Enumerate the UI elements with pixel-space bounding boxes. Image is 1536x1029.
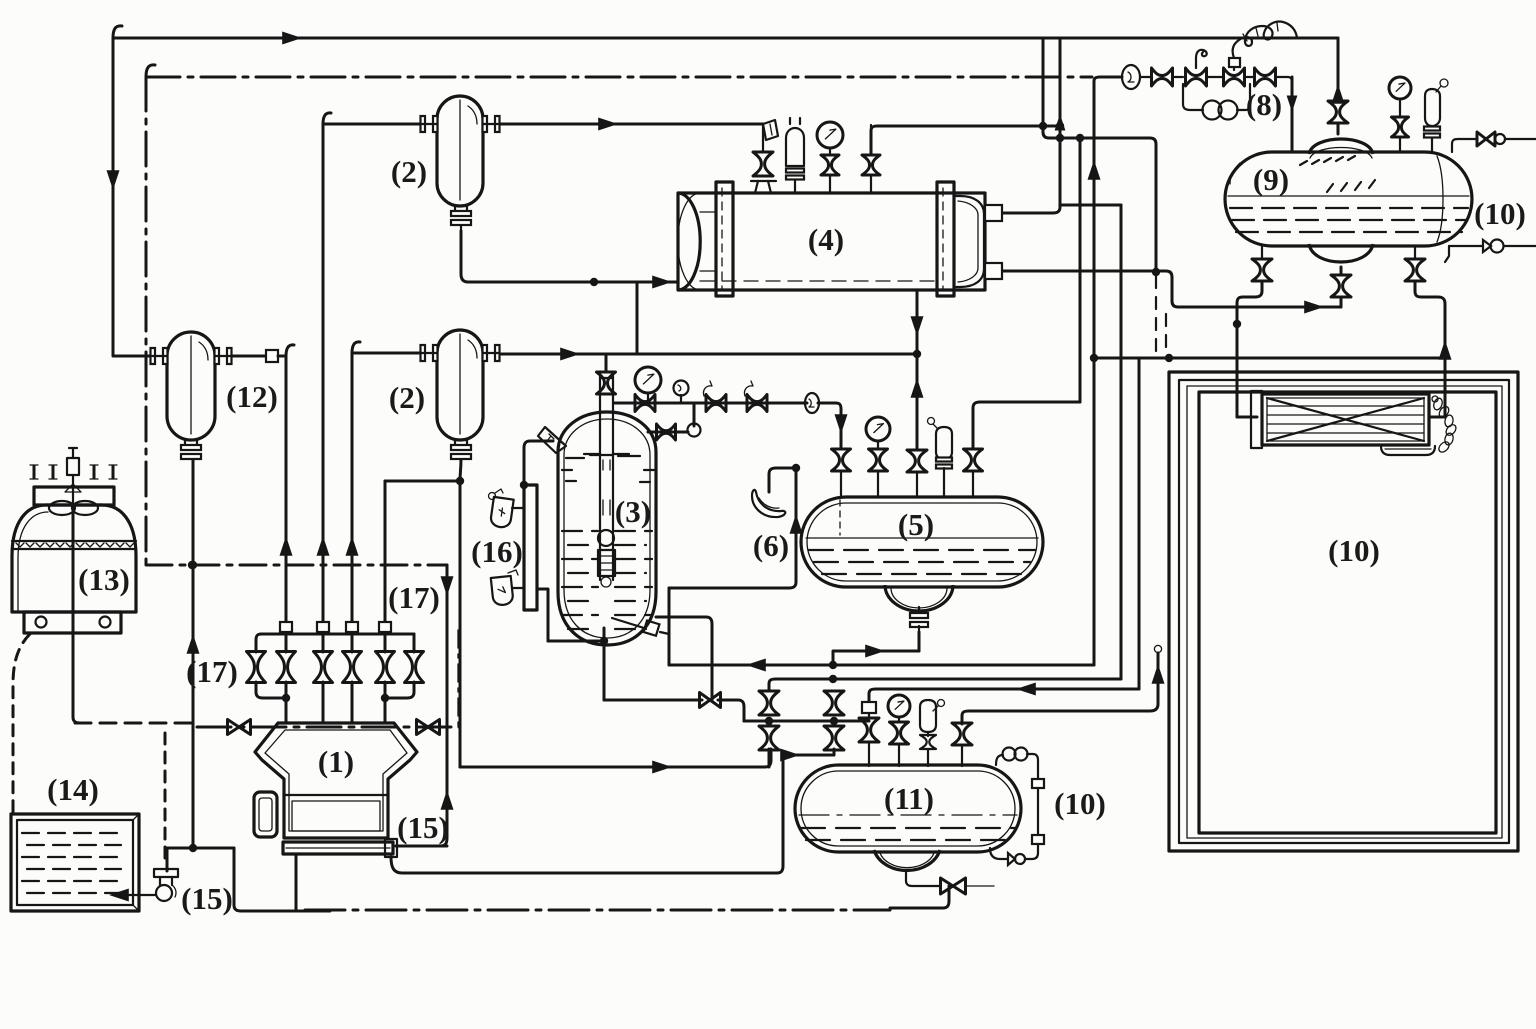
vessel (9) liquid level (1228, 195, 1469, 197)
drip tray in (10) (1381, 446, 1435, 455)
vessel (9) bottom dome (1309, 244, 1373, 262)
valve (17)-4 (343, 652, 362, 683)
svg-text:(12): (12) (226, 379, 278, 414)
machine (13) fan (49, 501, 75, 515)
stack4 gauge x=899 (888, 695, 910, 717)
vessel (9) shell (1225, 152, 1472, 246)
pump (15) (154, 869, 178, 877)
wire (3) level branch y=641 to x=548 and panel (548, 640, 604, 643)
valve compressor left (228, 720, 251, 735)
evaporator coil in (10) (1251, 391, 1262, 448)
vessel (4) right nozzles (985, 205, 1002, 221)
valve (8) c (1255, 68, 1276, 86)
vessel (4) right flange band (937, 182, 954, 296)
vessel (11) bottom dome (874, 850, 940, 870)
svg-text:(10): (10) (1054, 786, 1106, 821)
instrument pot (5) (928, 418, 935, 425)
wire (3) drain diagonal (612, 618, 644, 628)
oval instrument row-1 (805, 393, 819, 413)
wire compressor base to x=447 (396, 845, 447, 848)
wire (8) train outlet x=1292 into (9) top (1291, 77, 1294, 152)
svg-text:(17): (17) (388, 580, 440, 615)
wire (2)lower left nozzle feed from riser x=352 (352, 352, 421, 355)
valve (5) drain (918, 607, 920, 613)
valve (5) top-2 feed (907, 450, 927, 472)
box (10) outer wall (1169, 372, 1518, 851)
wire dashed x=1166 into cold box region (1165, 314, 1167, 356)
wire (2)lower bottom outlet down x=460 (460, 458, 461, 767)
wire (17) valve6 branch (413, 634, 416, 652)
valve (5) top-1 (832, 449, 851, 471)
wire (13) center drop (73, 505, 80, 723)
vessel (12) oil separator (167, 332, 215, 440)
panel (16) (524, 485, 537, 610)
wire (8) train line e (1276, 77, 1292, 90)
svg-text:(15): (15) (181, 881, 233, 916)
vessel (5) liquid (806, 537, 1038, 539)
pump (8) bypass gear (1203, 101, 1222, 120)
wire (2)top right nozzle line y=124 to relief flag (498, 123, 763, 126)
vessel (5) shell (801, 497, 1043, 587)
valve to header on (4) (870, 176, 872, 193)
vessel (9) top dome (1309, 139, 1373, 154)
wire return D y=711 from stack x=962 to x=1158 vent (962, 653, 1158, 724)
valve (17)-3 (314, 652, 333, 683)
wire (11) blowdown riser x=949 (943, 886, 949, 908)
vessel (3) dip tube (600, 374, 613, 580)
wire (5) riser x=973 up to y=402 and to x=1080 (973, 402, 1080, 449)
valve (17)-1 (247, 652, 266, 683)
relief valve with lever on (4) (755, 181, 771, 193)
wire (12) right nozzle to riser x=286 (231, 355, 266, 358)
valve (8) b (1224, 68, 1245, 86)
wire (2)lower right nozzle line y=354 to x=917 (498, 353, 917, 356)
wire (9) top-right vapor line (1452, 139, 1476, 152)
compressor (1) body (255, 723, 417, 838)
vessel (2) top (437, 96, 483, 206)
wire (4) relief riser line y=126 to x=1060 (871, 126, 1060, 154)
wire (8) train line b (1173, 76, 1183, 78)
wire (3) bottom line y=700 to valve and jog (604, 699, 702, 702)
svg-text:(9): (9) (1253, 162, 1289, 197)
wire y=205 from x=1060 to x=1121 (1060, 204, 1121, 207)
wire vertical x=1121 y=205 to 679 (1120, 205, 1123, 679)
valve (17)-5 (376, 652, 395, 683)
wire (9) right liquid line (1449, 245, 1483, 247)
wire (9) drain-1 x=1262 to cooler feed x=1237 (1237, 281, 1262, 417)
vessel (11) liquid (799, 814, 1017, 816)
svg-text:(3): (3) (615, 494, 651, 529)
wire stack1 bottom drop (768, 749, 771, 767)
wire (2)top feed y=124 from riser x=323 (323, 123, 421, 126)
wire (8) bypass loop (1183, 84, 1203, 110)
wire (8) suction riser x=1094 from y=665 to valve train y=77 (1094, 77, 1122, 665)
wire riser x=352 manifold to compressor (351, 353, 354, 652)
vessel (3) shell (558, 412, 656, 645)
vessel (11) shell (795, 765, 1021, 852)
wire vertical x=1139 y=358 to 689 (1138, 358, 1141, 689)
bucket (16) upper (490, 497, 514, 529)
valve (9) drain-2 (1331, 275, 1351, 297)
svg-text:(11): (11) (884, 781, 934, 816)
valve (11) drain (941, 878, 966, 894)
wire (3) instrument row y=403 from dip tube to (5) (614, 402, 807, 405)
svg-text:(10): (10) (1328, 533, 1380, 568)
svg-text:(2): (2) (391, 154, 427, 189)
gauge (3) big (635, 367, 661, 393)
compressor (1) suction drum (254, 792, 277, 837)
valve (9) right vapor (1477, 132, 1495, 146)
svg-text:(14): (14) (47, 772, 99, 807)
wire dash-dot drain y=910 to (11) blowdown (305, 909, 890, 912)
valve (3) bottom line (700, 693, 721, 708)
wire liquid feed y=721 from x=744 to stack x=869 (744, 720, 869, 723)
svg-text:(10): (10) (1474, 196, 1526, 231)
valve compressor right (417, 720, 440, 735)
wire stack2 bottom drop (833, 749, 836, 755)
machine (13) bracket (24, 612, 121, 633)
vessel (3) float (598, 530, 614, 546)
wire (11) drain (906, 871, 940, 886)
valve (9) drain-3 (1414, 246, 1416, 259)
svg-text:(17): (17) (186, 654, 238, 689)
wire x=796 down to y=588 return (669, 468, 796, 588)
valve (8) a (1152, 68, 1173, 86)
valve (3) feed (597, 372, 616, 394)
wire vertical x=1080 from y=138 to y=402 (1079, 138, 1082, 402)
wire dashed (13) to (14) (13, 634, 30, 812)
stack2 valves x=834 (824, 691, 844, 715)
wire (2)top bottom outlet down and right y=282 to (4) (461, 231, 678, 282)
valve (5) top-3 (964, 449, 983, 471)
wire (3) lower gauge line riser (693, 403, 696, 426)
valve (17)-6 (405, 652, 424, 683)
wire (17) header y=634 (261, 633, 414, 636)
pump (9) right liquid (1483, 240, 1491, 252)
machine (13) spray nozzles (34, 466, 113, 478)
valve (3) row-2 (706, 395, 726, 412)
chain on evaporator (1432, 397, 1444, 411)
instrument pot on (9) (1425, 89, 1440, 126)
svg-text:(2): (2) (389, 380, 425, 415)
vessel (4) left flange band (716, 182, 733, 296)
vessel (5) bottom dome (885, 585, 953, 611)
valve (8) hand with lever (1186, 68, 1207, 86)
wire oil drain y=848 from x=167 to x=234 (167, 847, 234, 850)
wire vertical x=113 down to (12) left nozzle (113, 38, 152, 356)
machine (13) distribution band (12, 541, 136, 549)
wire (3) feed valve drop x=606 (605, 354, 608, 372)
wire top discharge header y=38 from (1) area to (9) (113, 37, 1338, 40)
wire vertical x=1043 and y=138 line to x=1156 (1043, 38, 1156, 272)
wire (17) valve1 branch (256, 634, 261, 652)
wire (5) drain jog y=651 x=833 to x=919 (833, 651, 919, 665)
valve on (9) dome (1328, 101, 1348, 123)
svg-text:(13): (13) (78, 562, 130, 597)
wire (9) drain-3 x=1415 to x=1445 down to exchanger (1415, 281, 1445, 417)
valve (3) row-1 (635, 395, 655, 412)
wire return C y=689 from stack x=869 to x=1139 (869, 689, 1139, 702)
vessel (3) liquid dashes (562, 530, 652, 532)
wire oil return y=873 from compressor to stack2 (391, 755, 834, 873)
wire dash-dot x=458 segment above compressor line (457, 630, 459, 727)
wire riser x=323 manifold to compressor (322, 124, 325, 652)
gauge on (9) (1389, 77, 1411, 99)
wire (6) separator line to x=796 (769, 468, 796, 492)
wire pump discharge into tank (118, 894, 156, 896)
wire return A y=665 from x=669 to x=1094 (669, 664, 1094, 667)
wire suction y=767 from x=460 to stack1 (460, 749, 771, 767)
wire (8) train line d (1245, 76, 1255, 78)
wire dashed x=165 to oil pump (164, 733, 167, 866)
compressor (1) base plate (283, 842, 393, 854)
wire riser x=1341 into (9) bottom center valve (1340, 297, 1343, 307)
wire (8) train line a (1140, 76, 1152, 78)
wire (4) to (5) drop line x=917 (916, 290, 919, 450)
wire dash-dot compressor center line (75, 722, 193, 725)
stack1 valves x=769 (759, 691, 779, 715)
svg-text:(8): (8) (1246, 87, 1282, 122)
wire funnel line to (16) panel (524, 441, 553, 485)
wire exchanger outlet right (1429, 416, 1445, 419)
wire vertical x=669 from y=588 to y=665 (668, 588, 671, 665)
wire x=234 down to y=911 (234, 848, 330, 911)
wire (8) train line c (1207, 76, 1223, 78)
wire solid x=447 down to compressor base (396, 565, 447, 846)
wire dash-dot oil line y=77 from x=146 to (8) train (146, 76, 1092, 79)
valve (3) gauge-line (657, 424, 676, 440)
vessel (4) shell (678, 193, 985, 290)
funnel gauge on (3) shoulder (538, 427, 566, 453)
svg-text:(1): (1) (318, 744, 354, 779)
wire dash-dot vertical x=146 down to y=565 (145, 77, 148, 565)
wire (12) drop leg x=193 to oil drain (192, 456, 195, 848)
tank (14) liquid (22, 832, 126, 834)
wire riser x=286 manifold to compressor (285, 632, 288, 652)
wire (9) drain-2 center x=1341 valve stem (1340, 267, 1343, 275)
wire base drip leg x=296 (295, 855, 298, 911)
wire return B y=679 from stack x=769 to x=1121 (769, 679, 1121, 690)
wire riser x=385 manifold to compressor (384, 481, 387, 652)
vessel (9) spray marks (1300, 156, 1355, 165)
instrument pot on (4) (794, 180, 796, 193)
wire (4) bottom-right nozzle y=271 to x=1170 (1002, 271, 1341, 307)
instrument (3) small curl (674, 381, 689, 396)
wire dash-dot y=565 from x=146 to x=447 (146, 564, 447, 567)
stack5 pot x=928 (938, 700, 945, 707)
svg-text:(6): (6) (753, 528, 789, 563)
hose flexible charging connection (1233, 22, 1297, 58)
wire riser x=385 to y=481 junction (385, 481, 460, 622)
wire (3) right nozzle y=617 to x=712 (656, 617, 712, 700)
pressure gauge on (4) (829, 176, 831, 193)
stack6 valve x=962 (952, 723, 972, 745)
svg-text:(16): (16) (471, 534, 523, 569)
sight glass (10) at (11) (996, 755, 1003, 765)
valve (9) drain-1 (1261, 246, 1263, 259)
wire x=1338 riser from y=38 into (9) dome valve (1337, 38, 1340, 101)
wire (3) lower gauge line y=432 (648, 431, 688, 434)
machine (13) body (12, 505, 136, 612)
svg-text:(5): (5) (898, 507, 934, 542)
gauge oval (8) (1122, 65, 1140, 89)
wire branch x=637 from y=282 down to y=354 (636, 282, 639, 354)
valve (17)-2 (277, 652, 296, 683)
wire vertical x=1060 from y=38 to (4) top nozzle (1002, 38, 1060, 213)
vessel (2) lower (437, 330, 483, 440)
wire (3) bottom outlet x=604 with branch (603, 628, 606, 700)
svg-text:(15): (15) (397, 810, 449, 845)
tank (14) (11, 814, 139, 911)
wire (5) drain drop x=919 (918, 632, 921, 651)
valve (3) row-3 (747, 395, 767, 412)
stack3 tab and valve x=869 (862, 702, 876, 713)
gauge (5) (866, 417, 890, 441)
wire dashed x=1156 into cold box region (1155, 276, 1157, 356)
vessel (3) upper level dashes (566, 455, 640, 458)
wire y=358 equalizing line x=1094 to x=1445 (1094, 357, 1445, 360)
bucket (16) lower (491, 576, 514, 606)
wire cooler feed into exchanger (1237, 416, 1257, 419)
svg-text:(4): (4) (808, 222, 844, 257)
component (6) strainer (752, 490, 785, 517)
vessel (5) internal dashed partition (839, 500, 841, 535)
